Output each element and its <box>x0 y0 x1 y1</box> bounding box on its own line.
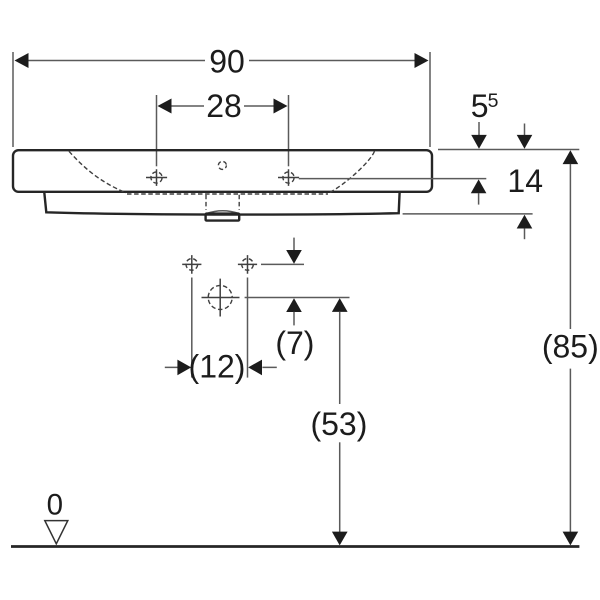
svg-text:5: 5 <box>471 88 489 124</box>
svg-text:0: 0 <box>47 489 63 522</box>
svg-text:(12): (12) <box>189 348 246 384</box>
svg-text:(7): (7) <box>275 325 314 361</box>
svg-text:90: 90 <box>209 43 245 79</box>
svg-text:(85): (85) <box>542 328 599 364</box>
svg-text:5: 5 <box>488 90 499 112</box>
svg-text:(53): (53) <box>310 406 367 442</box>
svg-text:28: 28 <box>206 88 242 124</box>
svg-text:14: 14 <box>507 163 543 199</box>
